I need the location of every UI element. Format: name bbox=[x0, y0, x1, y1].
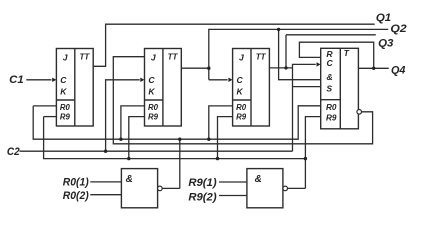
svg-text:R0: R0 bbox=[236, 102, 246, 112]
svg-text:R9(1): R9(1) bbox=[188, 177, 217, 189]
svg-text:R0: R0 bbox=[60, 102, 70, 112]
svg-text:Q3: Q3 bbox=[378, 37, 393, 49]
svg-text:R9: R9 bbox=[236, 112, 246, 122]
svg-text:TT: TT bbox=[80, 51, 90, 61]
svg-text:K: K bbox=[60, 87, 67, 97]
svg-text:R9: R9 bbox=[60, 112, 70, 122]
svg-text:R0: R0 bbox=[326, 102, 337, 112]
svg-text:J: J bbox=[151, 53, 156, 63]
svg-text:C2: C2 bbox=[7, 146, 20, 158]
svg-text:C: C bbox=[148, 75, 155, 85]
svg-text:C: C bbox=[60, 75, 67, 85]
svg-text:R0(1): R0(1) bbox=[63, 177, 89, 189]
svg-text:Q2: Q2 bbox=[390, 23, 406, 35]
svg-text:Q1: Q1 bbox=[376, 12, 391, 24]
svg-text:K: K bbox=[236, 87, 243, 97]
svg-text:T: T bbox=[344, 48, 350, 58]
svg-text:&: & bbox=[126, 174, 133, 185]
svg-text:C: C bbox=[236, 75, 243, 85]
svg-text:Q4: Q4 bbox=[391, 64, 405, 76]
svg-text:R9(2): R9(2) bbox=[188, 192, 217, 204]
svg-text:&: & bbox=[255, 174, 262, 185]
svg-text:&: & bbox=[326, 72, 332, 82]
svg-text:TT: TT bbox=[256, 51, 266, 61]
svg-text:J: J bbox=[63, 53, 68, 63]
svg-text:R0: R0 bbox=[148, 102, 158, 112]
svg-text:J: J bbox=[239, 53, 244, 63]
svg-text:R9: R9 bbox=[326, 113, 337, 123]
svg-text:TT: TT bbox=[168, 51, 178, 61]
svg-text:S: S bbox=[326, 84, 332, 94]
svg-text:K: K bbox=[148, 87, 155, 97]
svg-text:C1: C1 bbox=[9, 74, 24, 86]
svg-text:R9: R9 bbox=[148, 112, 158, 122]
svg-text:C: C bbox=[326, 58, 333, 68]
svg-text:R0(2): R0(2) bbox=[63, 190, 89, 202]
